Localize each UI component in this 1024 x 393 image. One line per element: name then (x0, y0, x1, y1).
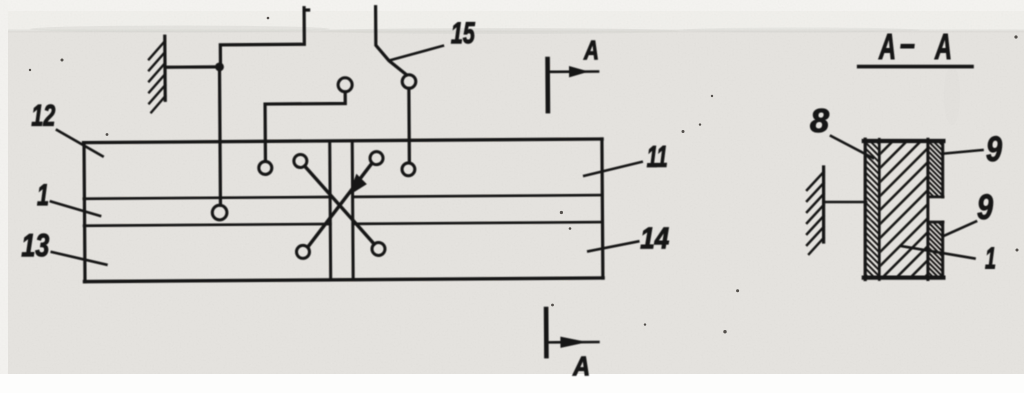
paper mottling top band (30, 26, 960, 126)
leader 14 (588, 241, 638, 251)
plate bottom edge (84, 278, 603, 282)
wire L-shaped pin link (265, 92, 346, 161)
link circle UR (370, 152, 383, 165)
bar 8 divider (878, 139, 881, 279)
leader 1 section (901, 246, 975, 259)
leader 11 (584, 162, 642, 176)
leader 13 (52, 252, 107, 265)
section mark A bottom arrow line (548, 341, 598, 344)
layer line upper (84, 195, 602, 199)
leader 9 lower (944, 222, 977, 237)
pin circle in plate (259, 161, 272, 174)
section mark A top bar (545, 59, 550, 111)
junction dot (215, 62, 224, 71)
slot left line (328, 142, 332, 278)
paper noise specks (29, 17, 1019, 334)
block bottom edge (864, 276, 944, 280)
pivot circle on layer 1 (212, 205, 227, 220)
plate left edge (82, 143, 86, 282)
crossing link UR-LL (307, 163, 372, 247)
wire wall to junction (165, 65, 216, 69)
switch circle (402, 75, 416, 89)
pin circle under switch (402, 163, 415, 176)
block 8/1/9 outline: top edge (864, 139, 944, 143)
pin circle upper (338, 78, 352, 92)
crossing link UL-LR (305, 166, 375, 245)
wall hatch support (top left) (149, 36, 166, 112)
paper very top strip (0, 0, 1024, 11)
strip 9 lower right edge (941, 222, 944, 278)
slot right line (351, 142, 355, 278)
plate 1 right edge (926, 139, 929, 279)
layer line lower (84, 222, 602, 226)
wire step up to top edge (220, 8, 309, 65)
switch lever 15 (376, 7, 407, 76)
hatching strip 9 upper (fine) (927, 125, 944, 212)
leader 15 (390, 46, 443, 60)
wire switch down to plate (407, 88, 411, 162)
strip 9 upper bottom edge (928, 196, 943, 199)
strip 9 lower top edge (928, 221, 943, 224)
section title underline (859, 65, 972, 69)
paper top band edge streak (0, 30, 1024, 33)
leader 1 (51, 201, 100, 216)
hatching bar 8 (fine) (864, 123, 881, 290)
strip 9 upper right edge (941, 141, 944, 197)
paper left light column (0, 0, 8, 393)
wall hatch support (section view) (807, 167, 824, 254)
section mark A top arrowhead (570, 67, 588, 77)
link circle LR (372, 242, 385, 255)
paper top light band (0, 0, 1024, 31)
plate right edge (600, 139, 604, 278)
leader 8 (831, 136, 873, 158)
paper bottom white strip (0, 374, 1024, 393)
link circle LL (296, 245, 309, 258)
leader 9 upper (945, 150, 983, 154)
hatching strip 9 lower (fine) (927, 206, 944, 288)
plate top edge (84, 139, 603, 143)
block left edge (864, 139, 867, 279)
wire junction down to pivot circle (218, 69, 222, 205)
link circle UL (294, 154, 307, 167)
section mark A bottom arrowhead (561, 337, 585, 347)
hatching plate 1 (diagonal) (878, 90, 930, 324)
leader 12 (57, 130, 103, 157)
wire wall to block (825, 201, 866, 204)
arrowhead on UR link (349, 175, 366, 195)
section mark A bottom bar (544, 309, 549, 356)
section mark A top arrow line (549, 70, 598, 73)
